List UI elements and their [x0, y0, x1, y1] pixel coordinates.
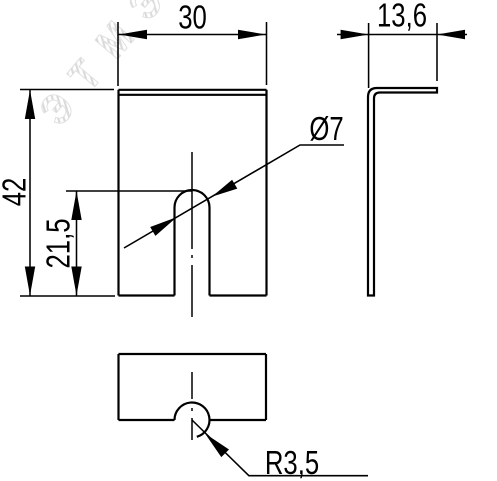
bottom edge right segment — [210, 419, 267, 421]
slot left side — [173, 208, 175, 296]
ext line 13.6 left — [368, 23, 370, 88]
leader R3.5 — [192, 420, 368, 476]
arrow 30 left — [119, 30, 147, 40]
arrow 42 top — [25, 90, 35, 119]
slot right side — [208, 208, 210, 296]
notch arc R3.5 — [174, 402, 209, 436]
bottom edge right segment — [210, 294, 267, 296]
watermark ЭТМ — [31, 0, 185, 134]
bottom edge left segment — [119, 419, 175, 421]
arrow 13.6 left (outside) — [341, 30, 369, 40]
leader O7 — [124, 145, 344, 248]
svg-text:Ø7: Ø7 — [309, 111, 343, 148]
dim line 30 — [119, 34, 267, 36]
arrow O7 lower-left — [150, 217, 177, 236]
dim line 13.6 — [337, 34, 467, 36]
svg-text:30: 30 — [178, 0, 207, 36]
top edge line 1 — [119, 89, 267, 91]
bottom view outline — [119, 354, 267, 437]
arrow 42 bottom — [25, 267, 35, 296]
right edge — [265, 354, 267, 420]
arrow 30 right — [238, 30, 266, 40]
svg-text:13,6: 13,6 — [377, 0, 427, 34]
center line front view — [191, 152, 193, 320]
bottom edge left segment — [119, 294, 175, 296]
ext line 30 right — [266, 22, 268, 85]
svg-text:21,5: 21,5 — [41, 218, 78, 268]
front view outline — [119, 90, 267, 296]
dim line 42 — [29, 90, 31, 296]
arrow R3.5 — [205, 434, 229, 458]
arrowheads — [25, 30, 465, 457]
dim line 21.5 — [76, 191, 78, 296]
svg-text:R3,5: R3,5 — [265, 445, 319, 481]
ext line 42/21.5 bottom — [20, 295, 115, 297]
arrow 21.5 bottom — [71, 267, 81, 296]
left edge — [117, 354, 119, 420]
arrow O7 upper-right — [212, 180, 237, 197]
svg-text:42: 42 — [0, 178, 33, 207]
slot round end (O7) — [175, 190, 210, 208]
center line bottom view — [191, 372, 193, 440]
right edge — [265, 90, 267, 296]
arrow 13.6 right (outside) — [437, 30, 465, 40]
top edge — [119, 353, 267, 355]
side view L-profile — [368, 88, 437, 296]
ext line 42 top — [20, 89, 114, 91]
ext line 30 left — [117, 22, 119, 86]
top edge line 2 (bent flange) — [120, 94, 266, 96]
ext line 13.6 right — [436, 23, 438, 81]
left edge — [117, 90, 119, 296]
ext line 21.5 — [66, 190, 192, 192]
arrow 21.5 top — [71, 191, 81, 220]
